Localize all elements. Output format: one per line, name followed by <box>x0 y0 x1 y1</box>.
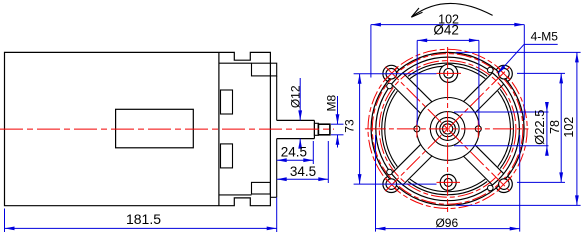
shaft collar <box>314 123 318 135</box>
flange ear lobes <box>383 65 400 82</box>
bottom hole boss <box>440 174 456 190</box>
flange rim circle O96 <box>376 57 520 201</box>
dimension 24.5 <box>312 141 314 164</box>
nameplate rectangle <box>116 109 194 148</box>
dimension M8 <box>337 96 339 124</box>
window arcs <box>500 89 513 168</box>
motor body outline <box>5 52 271 205</box>
top hole boss <box>440 64 458 82</box>
side hole right <box>475 126 481 132</box>
flange outer circle <box>371 52 524 205</box>
flange plate edge-on <box>276 76 278 121</box>
svg-text:102: 102 <box>562 117 576 138</box>
flange vertical centerline <box>447 47 449 212</box>
M5 holes <box>386 68 397 79</box>
bearing hub box lower <box>252 182 271 194</box>
brush holder box upper <box>221 90 233 114</box>
dimension O96 <box>375 135 377 232</box>
dimension 102 right <box>456 51 581 53</box>
svg-text:Ø96: Ø96 <box>435 216 458 230</box>
flange horizontal centerline <box>365 128 529 130</box>
bearing hub box upper <box>252 63 277 76</box>
red bolt circle 4-M5 <box>368 49 527 208</box>
body / end-cap joint line <box>218 52 220 205</box>
side hole left <box>414 126 420 132</box>
M5 hole cross ticks <box>386 68 397 79</box>
red reference circle <box>379 61 516 198</box>
small rim holes <box>387 83 393 89</box>
dimension O42 <box>416 40 418 125</box>
end-cap inner line top <box>219 62 252 64</box>
shaft thread M8 <box>318 124 330 135</box>
svg-text:78: 78 <box>548 120 562 134</box>
shaft cylinder <box>277 119 315 121</box>
rotation arrow <box>413 3 493 16</box>
brush holder box lower <box>221 144 233 168</box>
label 4-M5 with leader <box>524 43 558 45</box>
dimension 181.5 <box>4 209 6 233</box>
centre boss circles <box>430 112 465 147</box>
dimension 102 top <box>370 25 372 78</box>
svg-text:73: 73 <box>343 119 357 133</box>
X spokes <box>475 84 504 113</box>
end-cap inner line bottom <box>219 194 252 196</box>
top hole cross tick <box>437 72 462 74</box>
dimension O12 <box>299 78 301 120</box>
O42 circle <box>417 97 480 160</box>
svg-text:Ø42: Ø42 <box>433 23 459 38</box>
svg-text:34.5: 34.5 <box>290 164 316 179</box>
dimension O22.5 <box>454 111 549 113</box>
centerline left view <box>0 128 334 130</box>
svg-text:4-M5: 4-M5 <box>531 30 559 44</box>
bottom hole cross tick <box>437 181 461 183</box>
svg-text:Ø12: Ø12 <box>288 85 302 108</box>
svg-text:24.5: 24.5 <box>281 144 307 159</box>
dimension 73 <box>354 73 437 75</box>
red spigot circle <box>372 54 523 205</box>
dimension 34.5 <box>327 141 329 183</box>
svg-text:181.5: 181.5 <box>126 211 161 227</box>
red diagonal centerlines <box>385 67 509 191</box>
dimension 78 <box>517 72 565 74</box>
svg-text:Ø22.5: Ø22.5 <box>532 109 547 144</box>
svg-text:M8: M8 <box>325 94 339 111</box>
side hole ticks <box>416 121 418 138</box>
